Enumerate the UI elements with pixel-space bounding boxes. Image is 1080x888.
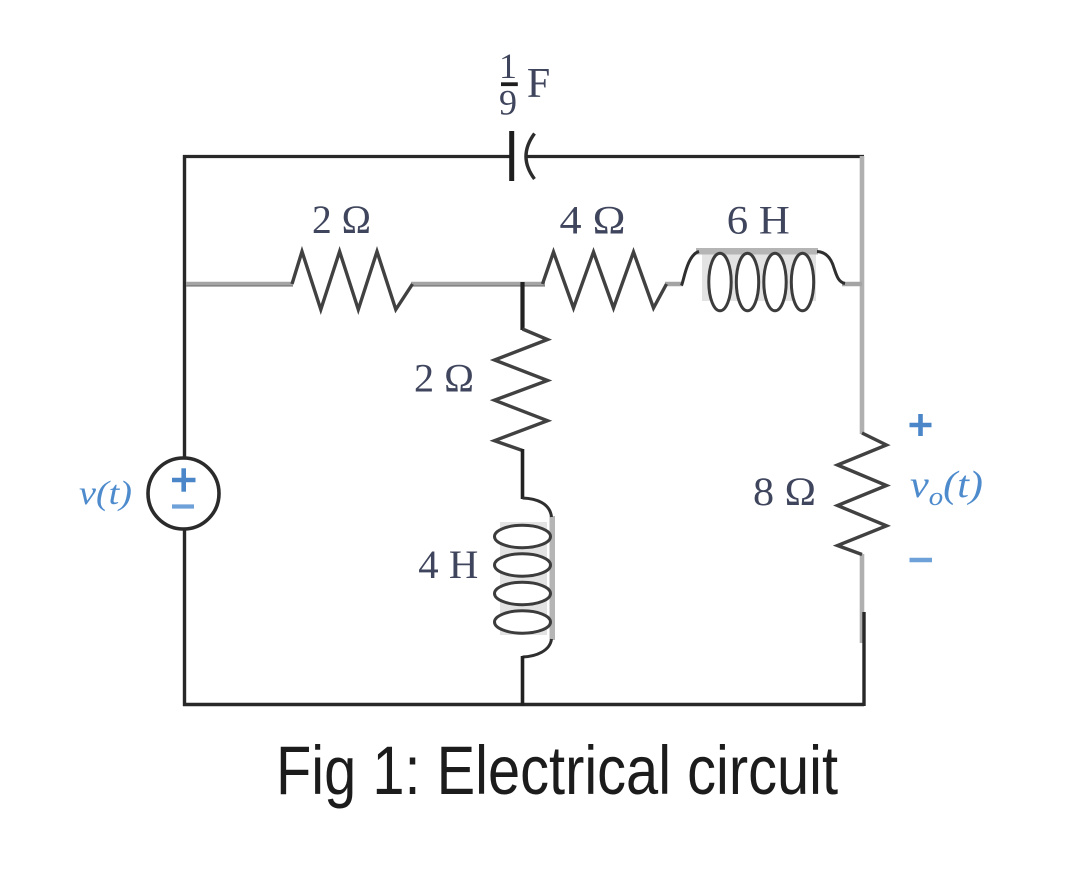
wire right side grey upper	[860, 156, 865, 434]
resistor R3 2ohm vertical zigzag	[495, 329, 548, 451]
wire top-left to capacitor	[183, 155, 510, 158]
node junction middle branch	[520, 282, 524, 330]
output plus sign	[910, 414, 932, 436]
inductor L2 4H vertical	[495, 498, 556, 657]
voltage source V1 minus sign	[172, 504, 194, 508]
wire capacitor to top-right corner	[526, 155, 864, 158]
svg-text:2 Ω: 2 Ω	[312, 197, 371, 242]
svg-text:4 H: 4 H	[418, 542, 478, 587]
wire middle horizontal grey segment C	[665, 282, 683, 286]
wire between R3 and L2	[521, 449, 525, 499]
svg-text:vo(t): vo(t)	[910, 464, 983, 511]
svg-text:F: F	[527, 61, 550, 107]
resistor R4 8ohm vertical zigzag	[838, 433, 887, 555]
svg-text:1: 1	[499, 46, 517, 86]
voltage source V1 plus sign	[172, 468, 196, 491]
svg-text:Fig 1: Electrical circuit: Fig 1: Electrical circuit	[276, 732, 838, 809]
svg-text:6 H: 6 H	[727, 198, 790, 243]
wire right side grey below resistor	[860, 554, 865, 643]
wire middle horizontal grey segment A	[186, 282, 293, 286]
voltage source V1 circle	[148, 458, 219, 529]
output minus sign	[910, 558, 933, 562]
capacitor C1 plate right curved	[526, 134, 535, 180]
wire bottom	[183, 703, 864, 706]
inductor L1 6H	[682, 248, 846, 311]
wire middle horizontal grey segment B	[411, 282, 545, 286]
resistor R1 2ohm horizontal zigzag	[292, 252, 413, 310]
wire L2 to bottom	[521, 656, 525, 706]
svg-text:9: 9	[499, 83, 517, 123]
svg-text:4 Ω: 4 Ω	[560, 198, 626, 243]
wire right side black lower	[862, 612, 865, 706]
capacitor value label 1/9 F	[499, 46, 550, 123]
resistor R2 4ohm horizontal zigzag	[543, 252, 667, 308]
wire left side vertical upper	[183, 155, 186, 458]
wire left side vertical lower	[183, 529, 186, 707]
svg-text:2 Ω: 2 Ω	[414, 356, 474, 401]
svg-text:8 Ω: 8 Ω	[753, 469, 816, 514]
wire middle horizontal grey segment D	[842, 282, 862, 286]
capacitor C1 plate left	[509, 131, 514, 181]
svg-text:v(t): v(t)	[79, 475, 132, 512]
